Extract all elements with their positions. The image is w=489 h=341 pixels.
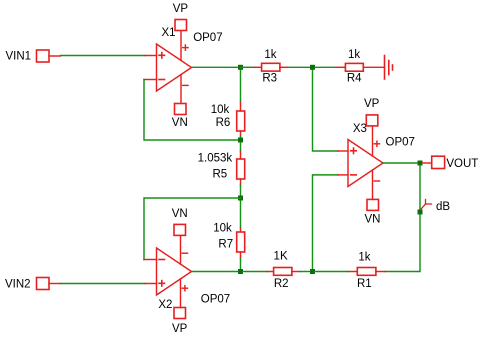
svg-text:R5: R5	[212, 168, 227, 180]
wire R3 to node E	[288, 66, 313, 68]
svg-text:R1: R1	[357, 278, 372, 290]
port VN (X1)	[175, 104, 187, 115]
wire X1 output to node A	[192, 66, 241, 68]
wire VIN2 to X2 +input	[61, 283, 146, 285]
probe dB	[421, 200, 432, 210]
wire node B to R5	[240, 143, 242, 152]
svg-text:VN: VN	[365, 213, 381, 225]
wire node C down to R7	[240, 201, 242, 228]
port VIN2	[37, 278, 61, 290]
op-amp U X3	[338, 126, 383, 199]
svg-text:R7: R7	[218, 239, 233, 251]
svg-text:dB: dB	[436, 201, 450, 213]
wire VIN1 to X1 +input	[61, 55, 146, 57]
wire node H down to R1 right	[385, 215, 421, 272]
op-amp U X2	[144, 235, 192, 307]
svg-text:VIN2: VIN2	[5, 278, 31, 290]
wire R6 to node B	[240, 137, 242, 141]
node H junction (dB probe)	[418, 210, 423, 215]
svg-text:R4: R4	[347, 73, 362, 85]
port VN (X2)	[174, 224, 186, 235]
svg-text:X3: X3	[353, 123, 367, 135]
wire R5 to node C	[240, 185, 242, 198]
svg-text:VIN1: VIN1	[6, 51, 32, 63]
svg-text:10k: 10k	[213, 223, 232, 235]
wire X2 feedback (inverting input to node C)	[144, 198, 241, 260]
svg-text:1k: 1k	[264, 49, 276, 61]
svg-text:X1: X1	[162, 27, 176, 39]
node F junction (R2 / R1 / X3 -input)	[310, 269, 315, 274]
svg-text:10k: 10k	[211, 104, 230, 116]
port VP (X3)	[366, 115, 378, 126]
wire X1 feedback (inverting input to node B)	[144, 80, 241, 141]
node A junction (X1 out / R3 / R6)	[238, 65, 243, 70]
wire X2 output to node D	[192, 271, 241, 273]
resistor R5	[237, 152, 245, 186]
svg-text:VP: VP	[364, 98, 380, 110]
svg-text:OP07: OP07	[193, 32, 222, 44]
wire X3 output to node G	[383, 162, 420, 164]
port VOUT	[423, 156, 445, 168]
node B junction (R6 / R5 / X1 feedback)	[238, 138, 243, 143]
svg-text:1.053k: 1.053k	[198, 153, 233, 165]
svg-text:R2: R2	[274, 278, 289, 290]
node G junction (X3 out / VOUT / feedback)	[418, 161, 423, 166]
svg-text:OP07: OP07	[201, 293, 230, 305]
svg-text:VOUT: VOUT	[446, 158, 478, 170]
resistor R1	[349, 268, 385, 276]
wire X3 -input to node F	[313, 175, 339, 272]
resistor R2	[267, 268, 299, 276]
port VP (X1)	[175, 20, 187, 31]
ground	[385, 56, 393, 80]
wire node F to R1	[315, 271, 349, 273]
resistor R3	[253, 63, 288, 71]
wire node A to R3	[241, 66, 254, 68]
wire R2 to node F	[299, 271, 312, 273]
svg-text:R6: R6	[216, 117, 231, 129]
node D junction (X2 out / R7 / R2)	[238, 269, 243, 274]
wire node E down to X3 +input	[313, 70, 339, 151]
svg-text:R3: R3	[262, 72, 277, 84]
wire R7 to node D	[240, 258, 242, 272]
svg-text:1k: 1k	[348, 49, 360, 61]
port VN (X3)	[367, 199, 379, 210]
wire node E to R4	[315, 66, 336, 68]
resistor R4	[336, 63, 385, 71]
wire node A down to R6	[240, 70, 242, 103]
svg-text:VN: VN	[172, 208, 188, 220]
resistor R7	[237, 228, 245, 258]
svg-text:VN: VN	[172, 117, 188, 129]
port VIN1	[37, 50, 61, 62]
resistor R6	[237, 102, 245, 136]
svg-text:OP07: OP07	[386, 137, 415, 149]
svg-text:1K: 1K	[274, 250, 288, 262]
node C junction (R5 / R7 / X2 feedback)	[238, 196, 243, 201]
wire node D to R2	[243, 271, 267, 273]
op-amp U X1	[144, 31, 192, 104]
port VP (X2)	[174, 308, 186, 319]
svg-text:1k: 1k	[358, 251, 370, 263]
node E junction (R3 / R4 / X3 +input)	[310, 65, 315, 70]
wire node G down to node H	[419, 166, 421, 213]
svg-text:VP: VP	[173, 3, 189, 15]
svg-text:VP: VP	[172, 323, 188, 335]
svg-text:X2: X2	[158, 299, 172, 311]
